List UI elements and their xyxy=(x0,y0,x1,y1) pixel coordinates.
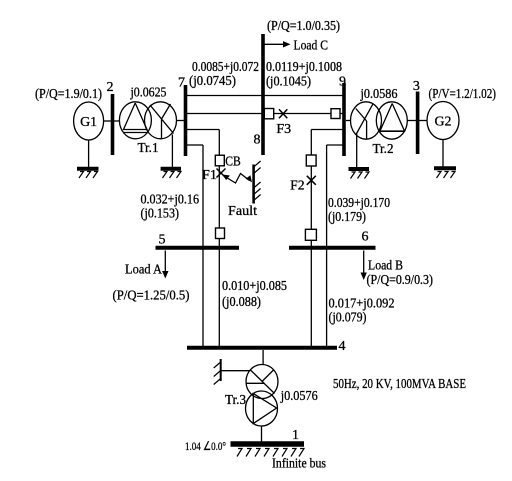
wire stub bus9 upper xyxy=(311,129,344,131)
ground Tr.2 xyxy=(349,134,370,179)
svg-text:Tr.2: Tr.2 xyxy=(373,142,394,157)
Load C arrow xyxy=(265,41,291,47)
wire bus4 to Tr.3 xyxy=(262,350,264,365)
bus 6 xyxy=(289,246,376,250)
svg-text:F3: F3 xyxy=(276,122,291,137)
svg-text:G1: G1 xyxy=(80,115,97,130)
bus 5 xyxy=(156,246,240,250)
svg-text:Fault: Fault xyxy=(228,204,257,219)
wire bus9 to Tr.2 xyxy=(346,120,351,122)
svg-text:0.039+j0.170: 0.039+j0.170 xyxy=(328,196,390,211)
svg-text:0.032+j0.16: 0.032+j0.16 xyxy=(141,192,200,207)
svg-text:0.017+j0.092: 0.017+j0.092 xyxy=(329,297,395,312)
svg-text:8: 8 xyxy=(254,133,261,148)
svg-text:F2: F2 xyxy=(290,178,305,193)
fault wall xyxy=(254,161,261,204)
wire stub bus9 lower xyxy=(327,144,344,146)
wire stub bus7 upper to feeder xyxy=(187,129,219,131)
breaker square above bus5 xyxy=(216,228,225,239)
bus 4 xyxy=(187,346,337,350)
svg-text:Tr.3: Tr.3 xyxy=(225,393,246,408)
transformer Tr.3 xyxy=(246,365,279,427)
svg-text:CB: CB xyxy=(225,155,241,170)
wire feeder 7-5 plain xyxy=(202,145,204,348)
svg-text:5: 5 xyxy=(159,233,166,248)
svg-text:Load B: Load B xyxy=(368,259,403,274)
wire G1 to bus2 xyxy=(104,120,111,122)
wire feeder 7-5-4 with CB xyxy=(218,130,220,348)
svg-text:0.0085+j0.072: 0.0085+j0.072 xyxy=(192,60,259,75)
svg-text:3: 3 xyxy=(413,79,420,94)
breaker square above bus6 xyxy=(305,229,316,240)
fault F1 X mark xyxy=(217,169,226,178)
svg-text:j0.0576: j0.0576 xyxy=(280,389,318,404)
svg-text:9: 9 xyxy=(339,75,346,90)
svg-text:j0.0625: j0.0625 xyxy=(130,86,167,101)
svg-text:Tr.1: Tr.1 xyxy=(138,141,159,156)
svg-text:(j0.179): (j0.179) xyxy=(328,210,366,225)
ground Tr.1 xyxy=(161,134,181,178)
svg-text:4: 4 xyxy=(339,339,346,354)
svg-text:(j0.088): (j0.088) xyxy=(222,295,261,310)
Tr.3 neutral ground xyxy=(214,359,250,385)
fault arrow zigzag xyxy=(223,174,253,184)
svg-text:(P/Q=1.25/0.5): (P/Q=1.25/0.5) xyxy=(113,289,190,304)
bus 7 xyxy=(184,85,188,156)
breaker square line 8-9 right xyxy=(331,109,340,119)
svg-text:F1: F1 xyxy=(202,168,217,183)
svg-text:Infinite bus: Infinite bus xyxy=(272,457,326,472)
infinite bus bar xyxy=(231,444,305,457)
generator G2 xyxy=(427,102,459,140)
bus 3 xyxy=(416,92,420,155)
ground G1 xyxy=(77,140,99,178)
svg-text:Load A: Load A xyxy=(125,263,163,278)
wire bus3 to G2 xyxy=(419,120,427,122)
wire bus2 to Tr.1 xyxy=(114,120,120,122)
generator G1 xyxy=(74,102,104,140)
wire line 7-8-9 top xyxy=(187,95,344,97)
svg-text:0.0119+j0.1008: 0.0119+j0.1008 xyxy=(266,60,342,75)
transformer Tr.1 xyxy=(119,102,176,139)
Load B arrow xyxy=(361,251,367,281)
svg-text:(j0.1045): (j0.1045) xyxy=(266,75,311,90)
bus 8 xyxy=(261,34,265,155)
svg-text:Load C: Load C xyxy=(294,39,329,54)
wire feeder 9-6 plain xyxy=(326,145,328,348)
svg-text:50Hz, 20 KV, 100MVA BASE: 50Hz, 20 KV, 100MVA BASE xyxy=(333,377,466,392)
svg-text:(j0.153): (j0.153) xyxy=(141,207,180,222)
svg-text:(P/Q=0.9/0.3): (P/Q=0.9/0.3) xyxy=(367,273,434,288)
svg-text:(P/Q=1.9/0.1): (P/Q=1.9/0.1) xyxy=(35,87,102,102)
wire feeder 9-6-4 with F2 xyxy=(310,130,312,348)
svg-text:0.010+j0.085: 0.010+j0.085 xyxy=(222,279,287,294)
svg-text:(P/V=1.2/1.02): (P/V=1.2/1.02) xyxy=(429,87,497,102)
breaker square CB xyxy=(215,155,224,166)
wire stub bus7 lower xyxy=(187,144,203,146)
ground G2 xyxy=(434,140,456,179)
wire line 7-8-9 second xyxy=(187,113,344,115)
transformer Tr.2 xyxy=(351,102,408,139)
svg-text:(P/Q=1.0/0.35): (P/Q=1.0/0.35) xyxy=(267,19,340,34)
fault F2 X mark xyxy=(307,176,316,185)
bus 9 xyxy=(342,83,346,156)
svg-text:7: 7 xyxy=(178,76,185,91)
svg-text:6: 6 xyxy=(362,230,369,245)
svg-text:G2: G2 xyxy=(435,115,452,130)
svg-text:(j0.079): (j0.079) xyxy=(329,311,367,326)
wire Tr.3 to infinite bus xyxy=(261,426,263,442)
svg-text:1: 1 xyxy=(292,428,299,443)
fault F3 X mark xyxy=(279,109,287,118)
bus 2 xyxy=(111,94,115,155)
breaker square line 8-9 left xyxy=(264,109,273,119)
wire Tr.1 to bus7 xyxy=(176,120,184,122)
wire Tr.2 to bus3 xyxy=(408,120,417,122)
Load A arrow xyxy=(162,251,168,279)
svg-text:1.04 ∠0.0°: 1.04 ∠0.0° xyxy=(185,439,226,453)
svg-text:(j0.0745): (j0.0745) xyxy=(189,74,236,89)
breaker square below stub9 xyxy=(306,155,316,166)
svg-text:2: 2 xyxy=(107,80,114,95)
svg-text:j0.0586: j0.0586 xyxy=(360,87,398,102)
